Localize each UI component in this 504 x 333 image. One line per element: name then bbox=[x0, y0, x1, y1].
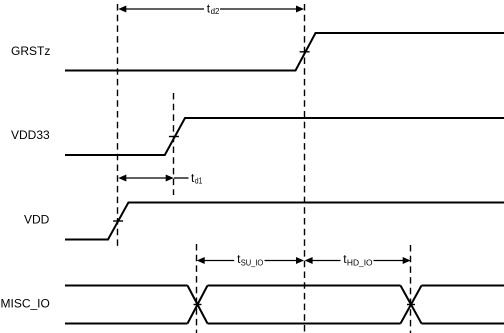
signal VDD33 waveform bbox=[65, 118, 504, 155]
dashed marker line D3 (MISC_IO valid start) bbox=[196, 244, 198, 333]
bus crossing X2 bbox=[401, 286, 422, 324]
svg-text:GRSTz: GRSTz bbox=[11, 44, 50, 58]
tick on VDD edge bbox=[113, 220, 123, 222]
tick on GRSTz edge bbox=[300, 51, 310, 53]
svg-text:VDD: VDD bbox=[24, 213, 50, 227]
svg-text:MISC_IO: MISC_IO bbox=[1, 297, 50, 311]
dashed marker line D5 (MISC_IO hold end) bbox=[410, 245, 412, 333]
dashed marker line D4 (GRSTz transition, full height) bbox=[304, 4, 306, 333]
tick at X1 center bbox=[194, 304, 202, 306]
tick at X2 center bbox=[407, 304, 415, 306]
signal VDD waveform bbox=[65, 203, 504, 240]
dashed marker line D1 (VDD transition / td start) bbox=[117, 4, 119, 248]
bus MISC_IO bottom rail bbox=[65, 323, 504, 325]
tick on VDD33 edge bbox=[169, 136, 179, 138]
dimension arrow tSU_IO bbox=[197, 257, 304, 264]
bus crossing X1 bbox=[188, 286, 208, 324]
dimension arrow td1 bbox=[118, 175, 188, 182]
bus MISC_IO top rail bbox=[65, 285, 504, 287]
svg-text:VDD33: VDD33 bbox=[11, 128, 50, 142]
dimension arrow td2 bbox=[118, 6, 304, 13]
dimension arrow tHD_IO bbox=[305, 257, 411, 264]
dashed marker line D2 (VDD33 transition / td1 end) bbox=[173, 93, 175, 195]
signal GRSTz waveform bbox=[65, 33, 504, 71]
